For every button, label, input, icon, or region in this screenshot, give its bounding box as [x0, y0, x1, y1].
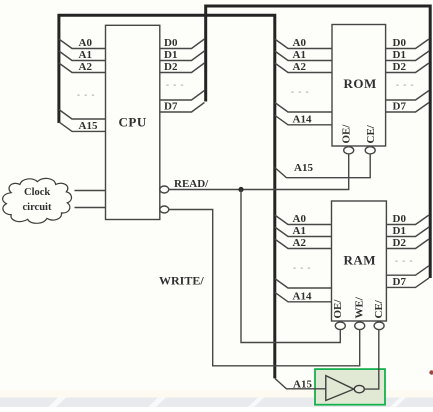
pin bubble ROM CE/	[365, 147, 375, 154]
wire READ/ from CPU to ROM OE/	[169, 154, 349, 190]
wire CPU address A0	[59, 39, 106, 49]
wire ROM data line	[386, 91, 429, 101]
svg-text:CE/: CE/	[365, 124, 377, 143]
wire RAM address A2	[275, 239, 332, 249]
svg-text:circuit: circuit	[23, 202, 52, 213]
pin bubble RAM OE/	[335, 322, 345, 330]
pin bubble CPU WRITE/	[160, 206, 169, 213]
svg-text:- - -: - - -	[396, 80, 415, 90]
svg-text:A0: A0	[293, 213, 307, 225]
pin bubble ROM OE/	[344, 147, 354, 154]
wire ROM address A1	[275, 51, 332, 61]
address bus (thick)	[59, 15, 275, 378]
data bus (thick)	[206, 6, 431, 278]
svg-text:D2: D2	[393, 237, 407, 249]
wire ROM address A0	[275, 39, 332, 49]
wire CPU data D1	[160, 51, 204, 61]
svg-text:- - -: - - -	[77, 90, 96, 100]
svg-text:- - -: - - -	[291, 87, 310, 97]
svg-text:- - -: - - -	[293, 263, 312, 273]
svg-text:D1: D1	[393, 225, 406, 237]
wire clock line 1	[75, 190, 106, 192]
wire CPU address A1	[59, 51, 106, 61]
wire CPU data D0	[160, 39, 204, 49]
wire RAM address line	[275, 279, 332, 289]
wire CPU address A2	[59, 63, 106, 73]
svg-text:A0: A0	[79, 37, 93, 49]
svg-text:D1: D1	[164, 49, 177, 61]
wire ROM address A2	[275, 63, 332, 73]
inverter highlight box	[315, 369, 385, 405]
svg-text:A1: A1	[79, 49, 92, 61]
wire CPU address line	[59, 110, 106, 120]
ROM block	[332, 25, 386, 147]
wire ROM data D2	[386, 63, 429, 73]
wire RAM data D7	[386, 278, 429, 288]
pin bubble RAM WE/	[355, 322, 365, 330]
wire RAM data line	[386, 266, 429, 276]
svg-text:READ/: READ/	[174, 178, 209, 190]
inverter U1 output bubble	[354, 385, 364, 392]
pin bubble RAM CE/	[374, 322, 384, 330]
clock circuit cloud	[3, 178, 72, 223]
svg-text:A2: A2	[79, 61, 93, 73]
wire ROM address line	[275, 103, 332, 113]
svg-text:A2: A2	[293, 237, 307, 249]
wire clock line 2	[75, 207, 106, 209]
wire CPU data D2	[160, 63, 204, 73]
wire RAM address A1	[275, 227, 332, 237]
wire CPU data line	[160, 91, 204, 101]
wire RAM address A0	[275, 215, 332, 225]
svg-text:A14: A14	[293, 290, 312, 302]
svg-text:D1: D1	[393, 49, 406, 61]
pin bubble CPU READ/	[160, 186, 169, 193]
svg-text:A15: A15	[293, 379, 312, 391]
svg-text:Clock: Clock	[24, 187, 50, 198]
wire RAM data D0	[386, 215, 429, 225]
svg-text:- - -: - - -	[395, 256, 414, 266]
wire ROM data D7	[386, 103, 429, 113]
wire ROM data D1	[386, 51, 429, 61]
inverter U1 triangle	[326, 376, 354, 401]
svg-text:RAM: RAM	[344, 253, 377, 268]
svg-text:CE/: CE/	[373, 299, 385, 318]
wire CPU data D7	[160, 103, 204, 113]
svg-text:A1: A1	[293, 225, 306, 237]
svg-text:A14: A14	[293, 113, 312, 125]
wire A15 to inverter input	[275, 378, 326, 389]
svg-text:D0: D0	[164, 37, 178, 49]
svg-text:D7: D7	[164, 101, 178, 113]
svg-text:D2: D2	[393, 61, 407, 73]
wire WRITE/ from CPU to RAM WE/	[169, 210, 360, 366]
svg-text:A15: A15	[294, 162, 313, 174]
wire A15 to ROM CE/	[275, 154, 370, 178]
wire CPU address A15	[59, 122, 106, 131]
svg-text:A15: A15	[79, 120, 98, 132]
svg-text:A1: A1	[293, 49, 306, 61]
wire READ/ branch to RAM OE/	[241, 190, 340, 343]
svg-text:WRITE/: WRITE/	[159, 274, 204, 288]
svg-text:CPU: CPU	[119, 115, 147, 130]
svg-text:OE/: OE/	[341, 124, 353, 144]
RAM block	[332, 201, 387, 321]
wire ROM data D0	[386, 39, 429, 49]
svg-text:A2: A2	[293, 61, 307, 73]
svg-text:D7: D7	[393, 101, 407, 113]
svg-text:D0: D0	[393, 37, 407, 49]
svg-text:- - -: - - -	[166, 80, 185, 90]
wire ROM address A14	[275, 115, 332, 125]
svg-text:D0: D0	[393, 213, 407, 225]
wire inverter output to RAM CE/	[364, 330, 379, 390]
junction node on READ/	[238, 187, 243, 192]
svg-text:D7: D7	[393, 276, 407, 288]
svg-text:D2: D2	[164, 61, 178, 73]
wire RAM data D2	[386, 239, 429, 249]
wire RAM address A14	[275, 292, 332, 302]
svg-text:OE/: OE/	[332, 299, 344, 319]
svg-text:A0: A0	[293, 37, 307, 49]
red mark	[429, 370, 433, 374]
svg-text:WE/: WE/	[354, 296, 366, 318]
CPU block	[106, 25, 160, 219]
svg-text:ROM: ROM	[344, 76, 377, 91]
wire RAM data D1	[386, 227, 429, 237]
